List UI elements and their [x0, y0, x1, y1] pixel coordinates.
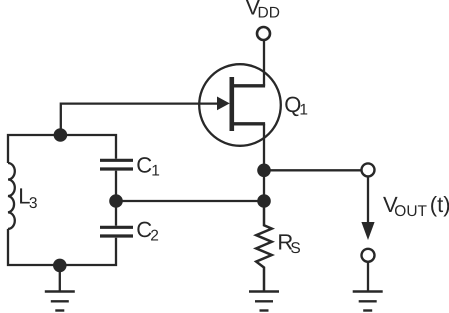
svg-text:2: 2 [150, 228, 159, 245]
svg-text:3: 3 [29, 195, 38, 212]
svg-text:OUT: OUT [394, 203, 427, 220]
svg-text:S: S [290, 240, 300, 257]
svg-text:(t): (t) [430, 192, 449, 217]
svg-text:DD: DD [258, 4, 280, 21]
svg-text:1: 1 [151, 163, 160, 180]
svg-text:C: C [136, 153, 152, 178]
svg-text:1: 1 [299, 101, 308, 118]
